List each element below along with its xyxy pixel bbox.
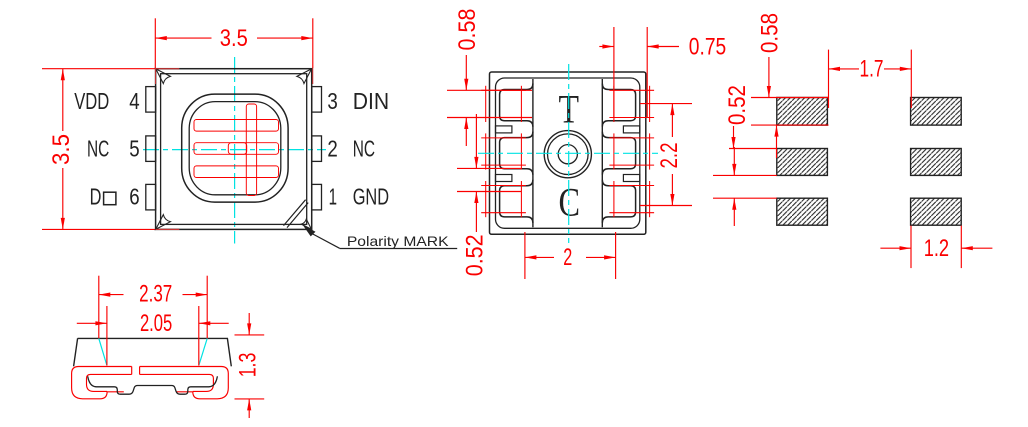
side view right lead frame (red) [140,367,229,399]
dimension 1.2 (pad width) extension lines [910,226,912,269]
svg-text:0.58: 0.58 [757,13,784,53]
svg-text:1.7: 1.7 [860,56,884,83]
bottom view right pad 2 [602,132,635,175]
svg-text:4: 4 [129,88,139,114]
red extension overlay on top view top edge [156,68,180,70]
red extension overlay on top view corner verticals [312,68,314,84]
dimension 1.7 (pad layout span) extension lines [828,50,830,108]
bottom view vertical centerline (cyan) [568,64,570,243]
svg-text:3: 3 [327,88,337,114]
top view horizontal centerline (cyan) [143,149,326,151]
svg-text:2.37: 2.37 [139,281,172,308]
bottom view center strip left edge [532,79,534,227]
svg-text:2.05: 2.05 [140,310,172,337]
svg-text:2: 2 [563,244,572,271]
lens internal die outline (red) [228,143,246,155]
bottom view left pad 5 [500,132,533,175]
bottom view right separation slots [623,126,639,133]
dimension 3.5 vertical dim line with arrows [62,69,64,131]
dimension 1.7 dim line with arrows [829,68,860,70]
lens internal lead-frame trace (vertical strip, red) [246,104,256,196]
bottom view red pad dimension box left row3 [481,185,526,187]
svg-text:2.2: 2.2 [656,143,683,169]
dimension 0.58 arrows and extension lines (bottom view) [465,55,467,90]
bottom view horizontal centerline (cyan) [478,152,658,154]
dimension 0.58 (pad layout) arrows and lines [768,57,770,98]
svg-text:0.52: 0.52 [461,234,488,276]
svg-text:5: 5 [129,135,139,161]
bottom view package inner edge [496,78,640,228]
polarity mark label underline [340,248,458,250]
bottom view left separation slots [496,126,512,133]
polarity mark leader arrow [303,225,316,237]
dimension 2.05 arrows [77,322,107,324]
polarity chamfer diagonal (double line) [284,200,309,228]
svg-text:Polarity MARK: Polarity MARK [347,234,449,249]
svg-text:3.5: 3.5 [48,134,75,165]
dimension 0.75 arrows [599,46,614,48]
dimension 2 (bottom view pad columns) extension lines [524,232,526,279]
bottom view left pad 6 [500,180,533,223]
svg-text:1: 1 [329,184,337,210]
dimension 1.2 arrows [880,247,911,249]
svg-text:NC: NC [353,135,375,161]
bottom view red pad dimension box right row2 [609,137,654,139]
solder pad layout left column (hatched pads) [777,98,828,126]
side view molding bottom contour (black) [88,376,218,394]
dimension 0.75 (bottom view pad width) extension lines [613,27,615,118]
dimension 2.05 extension lines [106,306,108,366]
bottom view red pad dimension box left row2 [481,137,526,139]
bottom view package outer body [490,72,646,234]
top view right pins 3,2,1 [312,87,322,113]
bottom view red pad dimension box left row1 [481,89,526,91]
dimension 2 dim line with arrows [525,256,554,258]
svg-text:2: 2 [327,135,337,161]
top view lens outer outline [182,94,288,202]
svg-text:0.58: 0.58 [454,9,481,51]
svg-text:D: D [90,184,102,210]
bottom view right pad 3 [602,84,635,127]
dimension 0.52 (pad layout) extension line and arrow [729,148,777,150]
side view left datum line (cyan) [99,338,107,365]
top view vertical centerline (cyan) [234,57,236,244]
bottom view center strip right edge [601,79,603,227]
red extension overlay on top view bottom edge [156,228,180,230]
dimension 3.5 horizontal (top view width) extension lines [154,18,156,68]
bottom view left pad 4 [500,84,533,127]
side view left lead frame (red) [72,367,132,399]
svg-text:GND: GND [353,184,389,210]
top view package outer body [156,69,312,230]
svg-text:1.2: 1.2 [924,235,949,262]
dimension 2.2 dim line with arrows [671,104,673,137]
bottom view red pad dimension box right row3 [609,185,654,187]
dimension 1.3 extension lines [235,334,265,336]
top view left pins 4,5,6 [146,87,156,113]
svg-text:0.52: 0.52 [724,85,751,125]
svg-text:DIN: DIN [353,88,389,114]
side view right datum line (cyan) [199,338,207,365]
dimension 2.37 dim line with arrows [99,294,124,296]
dimension 3.5 vertical (top view height) extension lines [42,68,179,70]
svg-text:1.3: 1.3 [235,353,262,378]
top view corner bevel mark (bottom-right) [301,219,311,229]
top view corner bevel mark (top-right) [297,69,312,84]
svg-text:NC: NC [87,135,109,161]
bottom view red pad dimension box right row1 [609,89,654,91]
top view corner bevel mark (top-left) [156,69,171,84]
svg-text:0.75: 0.75 [689,33,726,60]
dimension 2.2 (bottom view pad span) extension lines [640,103,692,105]
side view package body outline [74,338,232,366]
top view lens inner outline [189,102,281,195]
dimension 1.3 arrows [248,313,250,335]
solder pad layout right column (hatched pads) [911,98,962,126]
svg-text:VDD: VDD [74,88,109,114]
top view package inner edge [161,74,307,225]
svg-text:6: 6 [129,184,139,210]
dimension 2.37 extension lines [98,276,100,339]
bottom view right pad 1 [602,180,635,223]
top view corner bevel mark (bottom-left) [156,215,171,230]
dimension 3.5 horizontal dim line with arrows [155,37,211,39]
lens internal lead-frame traces (horizontal bands, red) [194,120,279,132]
pad layout lower gap dimension lines and arrows [713,174,777,176]
bottom view thermal pad circles [544,131,591,178]
pin label DO (square O) [104,192,116,205]
svg-text:3.5: 3.5 [220,25,248,52]
dimension 0.52 (bottom view pad gap) lines and arrows [457,167,521,169]
